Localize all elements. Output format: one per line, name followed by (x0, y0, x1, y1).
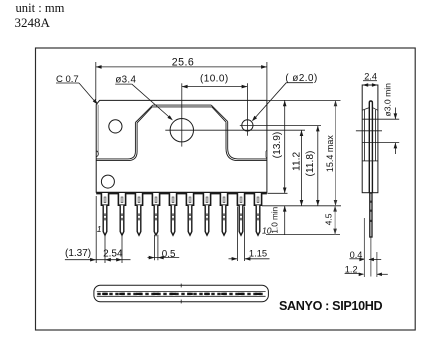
svg-text:2.54: 2.54 (103, 248, 123, 259)
hole phi3.4 centerline horizontal (165, 129, 305, 131)
side mold inner right (374, 110, 376, 161)
side mold roof left (362, 108, 369, 111)
mold top edge inner (152, 106, 212, 108)
dim (10.0) line (182, 86, 248, 88)
dim 25.6 extension right (266, 62, 268, 100)
side ext line left (363, 218, 365, 277)
svg-text:1.0 min: 1.0 min (270, 206, 279, 233)
ext lines pin9 shoulder sides (236, 207, 238, 262)
side pin extension line (370, 237, 372, 277)
ext line body bottom right (267, 192, 287, 194)
dim 2.54 (97, 259, 131, 261)
hole phi2.0 centerline horizontal (240, 125, 321, 127)
hole phi3.4 centerline vertical (181, 83, 183, 146)
pin 6 (186, 193, 193, 205)
ext line package top right (267, 99, 340, 101)
body bottom thick edge (96, 192, 267, 194)
dim 25.6 line (96, 66, 267, 68)
side ext line right (376, 252, 378, 277)
dim (11.8) (317, 126, 319, 206)
dim 0.5 (148, 257, 180, 259)
pin 4 (152, 193, 159, 205)
svg-text:1.15: 1.15 (249, 248, 267, 259)
bottom view channel bottom (97, 295, 266, 297)
right edge jog (265, 150, 268, 158)
side pin marks (370, 201, 371, 203)
bottom view center tick top (180, 284, 182, 288)
dim 25.6 extension left (95, 62, 97, 100)
svg-text:0.5: 0.5 (162, 249, 176, 260)
left edge gate mark (96, 151, 98, 157)
side mold step line (362, 160, 378, 162)
ext line pin tips right (266, 233, 340, 235)
svg-text:2.4: 2.4 (364, 71, 377, 81)
svg-text:1.2: 1.2 (345, 265, 358, 275)
dim 15.4 max (335, 100, 337, 205)
svg-text:25.6: 25.6 (172, 56, 195, 68)
ext line pin1 center (104, 235, 106, 263)
mold top edge outer (153, 104, 211, 106)
mold left chamfer inner (137, 107, 152, 123)
dim 4.5 (334, 206, 336, 235)
pin 8 (220, 193, 227, 205)
side view outline (362, 85, 378, 193)
mold left side outer (96, 123, 135, 159)
dim 11.2 (301, 130, 303, 206)
svg-text:3248A: 3248A (15, 15, 51, 30)
svg-text:11.2: 11.2 (292, 152, 303, 171)
ext line body left bottom (95, 196, 97, 263)
mounting hole phi3.4 (170, 119, 193, 142)
lower-left circle (101, 175, 114, 188)
svg-text:ø3.0 min: ø3.0 min (383, 83, 393, 117)
svg-text:(10.0): (10.0) (200, 74, 229, 85)
dim 1.15 (229, 258, 238, 260)
package body outline (96, 100, 267, 192)
mold right chamfer outer (211, 105, 228, 122)
side hole centerline (356, 130, 382, 132)
mold right side inner (226, 122, 267, 161)
side mold roof right (373, 108, 378, 111)
pin 2 (118, 193, 125, 205)
side hole top line (362, 118, 399, 120)
svg-text:1: 1 (97, 224, 102, 234)
mold right chamfer inner (212, 107, 226, 122)
bottom view channel top (97, 290, 266, 292)
bottom view pin dashes (97, 293, 265, 295)
svg-text:(1.37): (1.37) (65, 248, 91, 259)
mold left side inner (96, 123, 137, 161)
svg-text:(13.9): (13.9) (272, 132, 283, 159)
pin 5 (169, 193, 176, 205)
pin 1 (101, 193, 108, 205)
mounting hole phi2.0 (242, 120, 253, 131)
bottom view outline (94, 285, 269, 302)
pin 3 (135, 193, 142, 205)
dim 1.0 min (284, 206, 286, 235)
mold right side outer (228, 122, 267, 159)
side hole bottom line (362, 142, 399, 144)
pin 10 (254, 193, 261, 205)
mold left chamfer outer (135, 105, 152, 122)
svg-text:unit : mm: unit : mm (16, 1, 65, 15)
hole phi2.0 centerline vertical (246, 83, 248, 136)
pin 9 (237, 193, 244, 205)
ext line seating plane (262, 205, 341, 207)
border frame (36, 48, 416, 330)
svg-text:4.5: 4.5 (324, 213, 334, 225)
upper-left circle (109, 120, 122, 133)
side pin (370, 193, 372, 237)
pin 7 (203, 193, 210, 205)
svg-text:15.4 max: 15.4 max (325, 135, 335, 173)
ext lines pin4 lead sides (154, 235, 156, 260)
svg-text:SANYO : SIP10HD: SANYO : SIP10HD (279, 299, 382, 313)
ext line pin2 center (121, 235, 123, 263)
dim (13.9) (284, 100, 286, 193)
svg-text:(11.8): (11.8) (305, 151, 316, 177)
left inner edge line (97, 105, 99, 152)
side tab bar (369, 101, 372, 193)
side mold inner left (364, 110, 366, 161)
bottom view center tick bottom (180, 300, 182, 304)
